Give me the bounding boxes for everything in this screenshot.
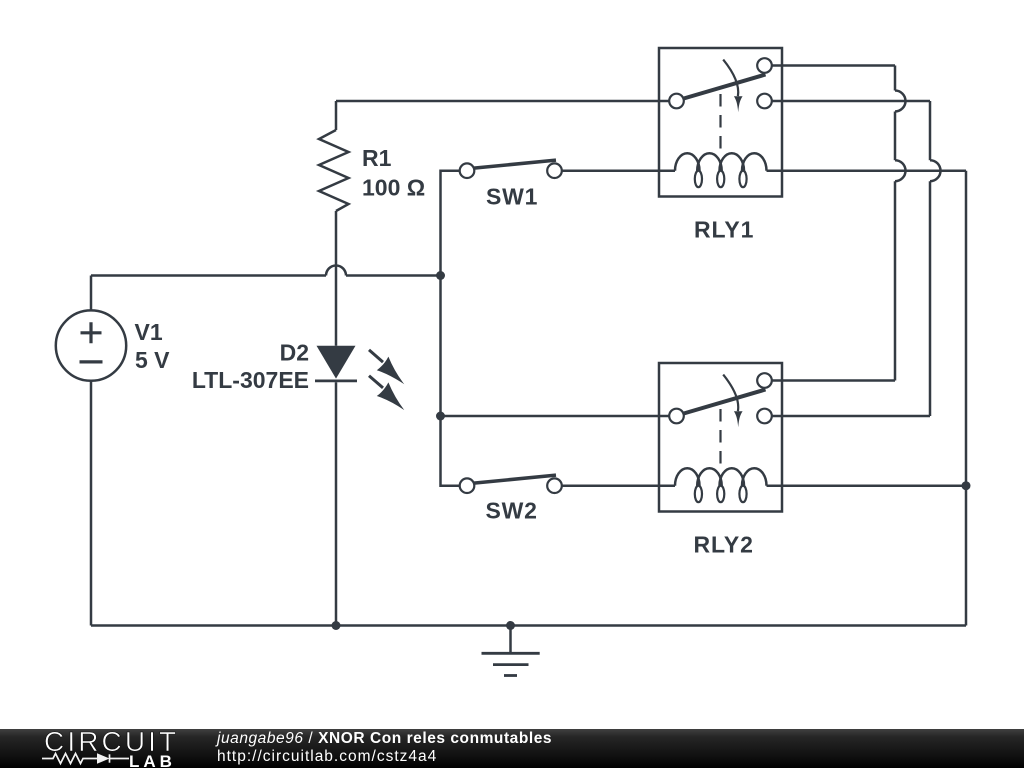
junction node A (bus/SW1): [436, 271, 445, 280]
junction node B (RLY2 common): [436, 412, 445, 421]
svg-text:100 Ω: 100 Ω: [362, 175, 425, 201]
wire: V1 top lead: [90, 276, 93, 311]
wire hop A over y=101: [895, 91, 906, 112]
LED cathode bar: [315, 379, 357, 382]
relay box: [659, 363, 782, 512]
RLY1 pin circle common: [669, 94, 684, 109]
coil loop 2: [717, 171, 724, 188]
minus sign: [80, 360, 103, 363]
coil hump 1: [675, 153, 700, 171]
wire: RLY1 pin2 to right vertical B: [765, 100, 931, 103]
relay box: [659, 48, 782, 197]
junction node coil bus: [962, 481, 971, 490]
switch SW2: [460, 475, 562, 493]
wire: junction B to RLY2 left pin: [441, 415, 677, 418]
LED bottom lead: [335, 382, 338, 625]
relay RLY2: [659, 363, 782, 512]
CircuitLab logo text: [44, 726, 179, 758]
wire: vertical A lower segment down to RLY2 top pin row: [894, 181, 897, 380]
SW1 right terminal: [547, 163, 562, 178]
wire hop A over y=170.7: [895, 160, 906, 181]
resistor R1: [319, 130, 349, 211]
svg-text:D2: D2: [280, 340, 309, 366]
wire: V1 bottom lead: [90, 381, 93, 626]
coil hump 4: [742, 153, 767, 171]
actuator arrow head: [734, 96, 743, 112]
SW1 left terminal: [460, 163, 475, 178]
coil hump 2: [697, 153, 722, 171]
coil hump 1: [675, 468, 700, 486]
coil loop 3: [739, 486, 746, 503]
wire: RLY2 coil right lead to right vertical: [767, 484, 967, 487]
SW2 arm: [473, 475, 557, 483]
LED light arrow 2 head: [377, 382, 405, 410]
LED light arrow 2 shaft: [369, 376, 383, 388]
plus sign: [81, 322, 102, 343]
svg-text:RLY2: RLY2: [694, 532, 754, 558]
SW2 left terminal: [460, 478, 475, 493]
LED D2: [315, 346, 404, 626]
wire hop B over y=170.7: [930, 160, 941, 181]
logo mini schematic: [42, 750, 142, 768]
switch SW1: [460, 160, 562, 178]
wire: RLY2 top pin to vertical A: [765, 379, 896, 382]
footer title line: [217, 730, 552, 748]
voltage source V1: [56, 310, 126, 380]
svg-text:SW1: SW1: [486, 184, 538, 210]
svg-text:5 V: 5 V: [135, 347, 170, 373]
relay switch arm: [682, 390, 766, 415]
LED triangle: [317, 346, 356, 379]
ground stem: [509, 626, 512, 654]
SW1 arm: [473, 160, 557, 168]
coil hump 2: [697, 468, 722, 486]
wire: right vertical C (coil bus): [965, 171, 968, 626]
junction node D2 bottom: [332, 621, 341, 630]
coil loop 1: [695, 486, 702, 503]
junction node ground: [506, 621, 515, 630]
wire: R1 bottom lead through bus crossing down to LED D2: [335, 211, 338, 346]
relay switch arm: [682, 75, 766, 100]
wire: SW2 right terminal to RLY2 coil: [555, 484, 676, 487]
footer bar: [0, 729, 1024, 768]
wire: vertical A upper segment: [894, 66, 897, 91]
actuator arrow curve: [723, 60, 738, 97]
wire hop over vertical at (336,275.5): [326, 266, 346, 276]
coil loop 3: [739, 171, 746, 188]
coil loop 2: [717, 486, 724, 503]
wire: vertical A mid segment: [894, 112, 897, 161]
ground symbol bars: [482, 653, 540, 675]
wire: top bus from R1 top to RLY1 left pin: [336, 100, 677, 103]
wire: vertical B upper segment: [929, 101, 932, 160]
wire: vertical from junction A down to junction B: [439, 276, 442, 417]
RLY1 pin circle NO (top): [757, 58, 772, 73]
svg-text:R1: R1: [362, 145, 392, 171]
relay RLY1: [659, 48, 782, 197]
actuator arrow curve: [723, 375, 738, 412]
RLY2 pin circle NC: [757, 409, 772, 424]
coil loop 1: [695, 171, 702, 188]
LED light arrow 1 shaft: [369, 350, 383, 362]
footer url line: [217, 748, 437, 766]
dashed actuator line: [719, 94, 721, 150]
wire: SW1 right terminal to RLY1 coil: [555, 169, 676, 172]
svg-text:V1: V1: [135, 319, 163, 345]
SW2 right terminal: [547, 478, 562, 493]
coil hump 3: [720, 468, 745, 486]
svg-text:SW2: SW2: [486, 498, 538, 524]
wire: bottom bus: [91, 624, 966, 627]
RLY1 pin circle NC: [757, 94, 772, 109]
wire: vertical B down to RLY2 pin2 row: [929, 181, 932, 416]
LED light arrow 1 head: [377, 357, 405, 385]
wire: R1 top lead: [335, 101, 338, 130]
svg-text:LTL-307EE: LTL-307EE: [192, 367, 309, 393]
wire: junction B down to SW2: [441, 416, 468, 486]
wire: main bus left segment (V1 to hop): [91, 274, 326, 277]
RLY2 pin circle NO (top): [757, 373, 772, 388]
wire: main bus right segment (hop to junction): [346, 274, 441, 277]
coil hump 3: [720, 153, 745, 171]
wire: RLY1 top pin to right vertical A: [765, 64, 896, 67]
wire: RLY1 coil right lead to corner: [767, 169, 967, 172]
svg-text:RLY1: RLY1: [694, 217, 754, 243]
actuator arrow head: [734, 411, 743, 427]
wire: junction up to SW1: [441, 171, 468, 276]
dashed actuator line: [719, 409, 721, 465]
wire: RLY2 pin2 to vertical B: [765, 415, 931, 418]
coil hump 4: [742, 468, 767, 486]
RLY2 pin circle common: [669, 409, 684, 424]
